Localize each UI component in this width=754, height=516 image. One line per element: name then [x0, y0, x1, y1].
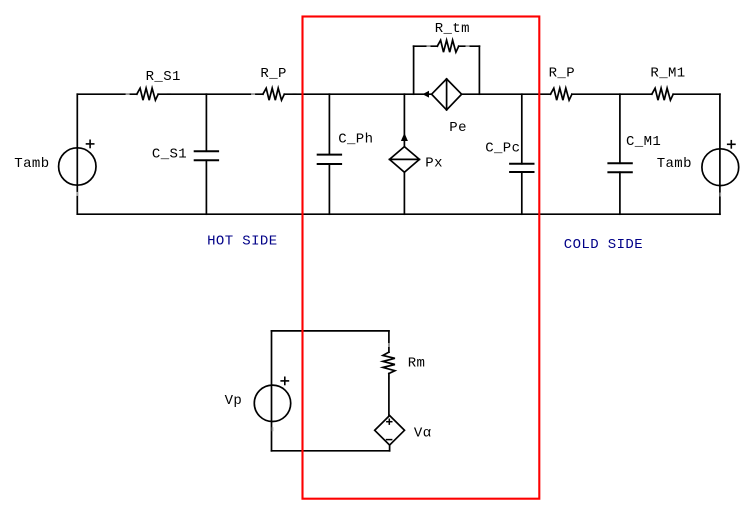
- capacitor C_S1: [194, 151, 219, 160]
- svg-text:R_M1: R_M1: [650, 66, 685, 82]
- current source Px diamond: [390, 147, 420, 173]
- wire: R_tm top left: [414, 45, 438, 47]
- wire: C_S1 branch wire lower: [205, 160, 207, 214]
- svg-text:Px: Px: [425, 156, 443, 172]
- voltage source Vp: [254, 385, 290, 421]
- svg-text:C_S1: C_S1: [152, 147, 187, 163]
- wire: Px branch wire upper: [403, 94, 405, 146]
- resistor R_tm: [437, 40, 458, 52]
- plus sign of left Tamb source: [86, 140, 95, 149]
- pin marker below right Tamb: [719, 193, 721, 197]
- svg-text:R_P: R_P: [260, 66, 286, 82]
- wire: R_tm left leg: [413, 46, 415, 94]
- wire: bottom circuit bottom rail: [272, 450, 390, 452]
- svg-text:Rm: Rm: [408, 356, 426, 372]
- node: C_M1 branch wire upper: [619, 94, 621, 163]
- resistor Rm: [383, 352, 395, 373]
- svg-text:C_Pc: C_Pc: [485, 141, 520, 157]
- svg-text:R_tm: R_tm: [435, 21, 470, 37]
- capacitor C_M1: [607, 163, 632, 172]
- plus sign inside Valpha: [386, 419, 392, 425]
- arrow of current source Pe (pointing left): [423, 91, 430, 98]
- svg-text:COLD SIDE: COLD SIDE: [564, 237, 643, 253]
- plus sign of Vp source: [280, 377, 289, 386]
- node: C_Pc branch wire upper: [521, 94, 523, 164]
- svg-text:C_M1: C_M1: [626, 134, 661, 150]
- capacitor C_Ph: [317, 155, 342, 164]
- pin marker R_P right: [293, 93, 297, 95]
- arrow of current source Px (pointing up): [401, 133, 408, 141]
- pin marker R_P left: [251, 93, 255, 95]
- wire: C_M1 branch wire lower: [619, 172, 621, 214]
- plus sign of right Tamb source: [727, 140, 736, 149]
- wire: Rm to Valpha: [388, 374, 390, 416]
- pin marker below Vp: [272, 427, 274, 431]
- wire: top rail R_S1 to R_P: [158, 93, 263, 95]
- Peltier module boundary (red box): [303, 17, 540, 499]
- voltage source Tamb (right, cold side ambient): [702, 149, 739, 186]
- pin marker R_S1 right: [167, 93, 171, 95]
- wire: C_Pc branch wire lower: [521, 172, 523, 214]
- svg-text:HOT SIDE: HOT SIDE: [207, 234, 277, 250]
- svg-text:Tamb: Tamb: [657, 156, 692, 172]
- resistor R_M1: [652, 88, 673, 100]
- pin marker below left Tamb: [76, 192, 78, 196]
- svg-text:R_S1: R_S1: [146, 69, 181, 85]
- svg-text:C_Ph: C_Ph: [338, 132, 373, 148]
- wire: bottom rail: [77, 213, 720, 215]
- capacitor C_Pc: [509, 164, 534, 172]
- node: C_S1 branch wire upper: [205, 94, 207, 151]
- pin marker Rm top: [388, 343, 390, 347]
- wire: C_Ph branch wire lower: [328, 164, 330, 214]
- wire: top rail Pe to R_P cold: [462, 93, 551, 95]
- minus sign inside Valpha: [386, 439, 393, 441]
- pin marker R_tm right: [466, 45, 470, 47]
- svg-text:Tamb: Tamb: [14, 156, 49, 172]
- pin marker Rm bottom: [388, 376, 390, 380]
- wire: Vp branch left vertical: [271, 331, 273, 451]
- wire: top rail R_M1 to right corner: [673, 93, 720, 95]
- voltage source Tamb (left, hot side ambient): [59, 148, 96, 185]
- svg-text:Vp: Vp: [225, 393, 243, 409]
- svg-text:Vα: Vα: [414, 425, 432, 441]
- wire: R_tm top right: [459, 45, 480, 47]
- wire: right vertical branch (cold side ambient): [719, 94, 721, 214]
- dependent voltage source Valpha diamond: [375, 416, 405, 446]
- resistor R_P (cold side): [551, 88, 572, 100]
- wire: left vertical branch (hot side ambient): [76, 94, 78, 214]
- pin marker R_S1 left: [126, 93, 130, 95]
- wire: top rail from left corner to R_S1: [77, 93, 137, 95]
- current source Pe diamond: [432, 79, 462, 110]
- svg-text:Pe: Pe: [449, 120, 467, 136]
- pin marker R_tm left: [427, 45, 431, 47]
- resistor R_S1: [137, 88, 158, 100]
- wire: R_tm right leg: [478, 46, 480, 94]
- wire: Rm upper lead: [388, 331, 390, 352]
- svg-text:R_P: R_P: [549, 66, 575, 82]
- wire: Valpha bottom stub: [389, 445, 391, 451]
- wire: Px branch wire lower: [403, 172, 405, 214]
- wire: top rail R_P cold to R_M1: [572, 93, 652, 95]
- node: C_Ph branch wire upper: [328, 94, 330, 154]
- wire: top rail R_P to Pe source: [284, 93, 431, 95]
- wire: bottom circuit top rail: [272, 330, 389, 332]
- resistor R_P (hot side): [263, 88, 284, 100]
